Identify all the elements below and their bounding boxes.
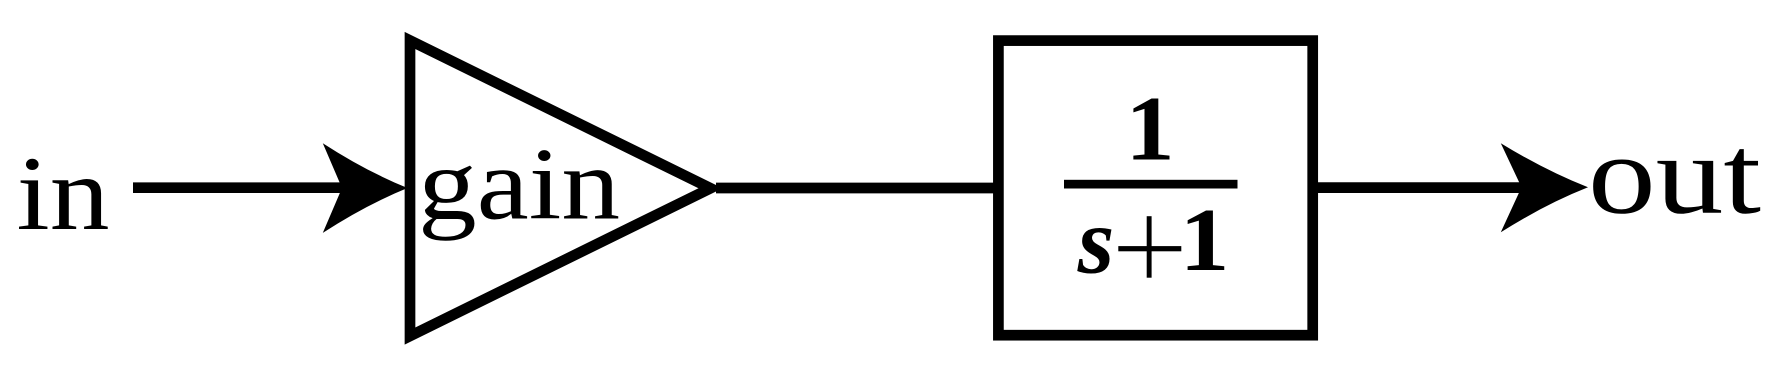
svg-text:1: 1 <box>1125 77 1174 180</box>
svg-text:1: 1 <box>1180 189 1230 290</box>
svg-text:s: s <box>1077 190 1115 294</box>
svg-text:out: out <box>1588 113 1761 238</box>
svg-text:gain: gain <box>418 128 620 242</box>
svg-text:in: in <box>17 135 110 252</box>
